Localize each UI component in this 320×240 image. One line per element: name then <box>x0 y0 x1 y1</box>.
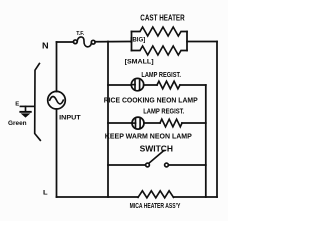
wire: switch branch left <box>108 164 146 166</box>
earth wire E <box>20 106 34 111</box>
svg-text:INPUT: INPUT <box>59 115 80 122</box>
svg-text:L: L <box>43 190 48 197</box>
svg-text:[SMALL]: [SMALL] <box>125 58 154 65</box>
svg-text:SWITCH: SWITCH <box>140 145 174 154</box>
svg-text:N: N <box>42 40 49 50</box>
wire: switch branch right <box>168 164 205 166</box>
wire: left rail lower (source to L) <box>56 109 58 197</box>
wire: top rail left segment <box>57 41 74 43</box>
svg-text:E: E <box>15 101 19 107</box>
resistor LAMP REGIST. (rice) <box>157 81 180 89</box>
wire: keep warm branch right <box>182 122 206 124</box>
wire: lamp to resistor (rice) <box>144 84 157 86</box>
switch contacts and lever <box>146 150 169 167</box>
wire: inner right rail vertical <box>205 85 207 197</box>
neon lamp (keep warm) <box>132 117 144 129</box>
ground symbol (earth) <box>19 111 31 118</box>
resistor LAMP REGIST. (keep warm) <box>160 119 182 127</box>
svg-text:MICA HEATER ASS’Y: MICA HEATER ASS’Y <box>130 201 181 210</box>
neon lamp (rice cooking) <box>131 78 143 91</box>
power plug bracket <box>35 64 41 141</box>
cast heater left bus bar <box>131 32 133 51</box>
svg-text:LAMP REGIST.: LAMP REGIST. <box>143 106 184 115</box>
resistor MICA HEATER ASS'Y <box>138 191 174 198</box>
wire: fuse to cast heater <box>95 41 131 43</box>
thermal fuse T.F. <box>73 37 95 47</box>
svg-text:LAMP REGIST.: LAMP REGIST. <box>141 70 181 79</box>
AC source <box>48 91 66 109</box>
wire: bottom rail right <box>174 196 218 198</box>
wire: heater to outer right rail <box>187 41 217 43</box>
svg-text:CAST HEATER: CAST HEATER <box>140 14 184 23</box>
resistor cast heater (BIG) <box>132 27 188 36</box>
wire: keep warm branch left <box>108 122 132 124</box>
wire: left rail upper (N to source) <box>56 42 58 92</box>
wire: rice lamp branch left <box>108 84 131 86</box>
cast heater right bus bar <box>186 32 188 51</box>
wire: outer right rail vertical <box>216 42 218 198</box>
wire: lamp to resistor (keep warm) <box>144 122 160 124</box>
svg-text:T.F.: T.F. <box>76 31 84 37</box>
svg-text:KEEP WARM NEON LAMP: KEEP WARM NEON LAMP <box>105 131 192 140</box>
resistor cast heater (SMALL) <box>132 46 188 55</box>
wire: rice branch right <box>180 84 206 86</box>
svg-text:Green: Green <box>8 120 27 127</box>
svg-text:[BIG]: [BIG] <box>130 37 145 44</box>
svg-text:RICE COOKING NEON LAMP: RICE COOKING NEON LAMP <box>104 96 198 105</box>
wire: bottom rail left <box>57 196 139 198</box>
wire: inner feed vertical <box>107 42 109 198</box>
